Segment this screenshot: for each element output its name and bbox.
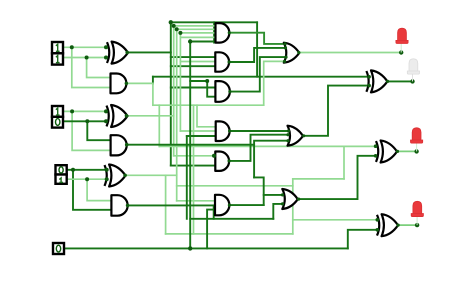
wire XOR P0 output to bus V3 xyxy=(125,174,177,176)
wire H3 light into AND M1 xyxy=(177,28,217,30)
wire B1 branch down to AND G1 upper input xyxy=(87,121,110,140)
op XOR gate S1 xyxy=(376,141,397,163)
wire bus V1 vertical dark xyxy=(170,22,172,165)
node A2 branch xyxy=(70,45,74,49)
node A0 branch xyxy=(71,168,75,172)
wire AND M3 output to OR C3 third input xyxy=(230,57,286,92)
digit 1 pin B2 xyxy=(56,56,60,63)
wire light riser to S1 feed line xyxy=(158,105,160,146)
input pin A2 value 1 xyxy=(52,42,63,53)
wire B0 branch down to AND G0 upper input xyxy=(87,179,111,200)
wire B0 to XOR P0 xyxy=(67,178,107,180)
wire AND G1 output run xyxy=(126,144,254,146)
op XOR gate S0 xyxy=(377,214,398,236)
wire AND M5 output to OR C2 second input xyxy=(231,135,289,161)
wire A0 to XOR P0 xyxy=(67,169,107,171)
node bus corner V3 xyxy=(175,27,179,31)
op AND gate M2 xyxy=(215,52,229,71)
wire C0 riser to XOR S0 lower input xyxy=(348,230,378,249)
node XOR P2 output xyxy=(125,51,129,55)
node XOR P0 input dots xyxy=(105,168,109,172)
op XOR gate P0 xyxy=(105,165,126,187)
node XOR S0 input dots xyxy=(376,218,380,222)
node AND G2 output xyxy=(125,82,129,86)
wire dark stub at bus left xyxy=(152,77,154,84)
node LED S2 terminal xyxy=(410,79,414,83)
wire to AND M3 bottom input Z jog xyxy=(190,81,215,97)
wire V1 to AND M5 bottom input xyxy=(171,165,216,167)
node bus corner V5 xyxy=(188,39,192,43)
wire G2 riser to OR C3 bottom input xyxy=(264,61,285,105)
wire V1 to AND M3 top input xyxy=(171,87,216,89)
wire AND G2 output xyxy=(126,82,153,84)
wire G1 riser at bus xyxy=(189,42,191,249)
op AND gate M4 xyxy=(216,121,230,141)
node XOR P1 input dots xyxy=(104,109,108,113)
wire V2 to AND M5 top input xyxy=(174,155,216,157)
wire H1 top run xyxy=(171,21,257,23)
op AND gate M1 xyxy=(216,23,230,42)
op XOR gate P2 xyxy=(107,42,128,64)
wire AND M6 output run xyxy=(230,204,264,206)
node M5 input dot xyxy=(212,154,216,158)
node OR C3 input ends xyxy=(283,42,286,45)
digit 0 pin B1 xyxy=(56,119,60,126)
digit 0 pin A0 xyxy=(59,167,63,173)
wire dark jog below OR C2 xyxy=(254,177,264,195)
wire AND G0 output run xyxy=(126,204,213,206)
node bus corner V2 xyxy=(172,24,176,28)
input pin B2 value 1 xyxy=(52,53,63,64)
wire B2 to XOR P2 xyxy=(63,57,106,59)
wire light long riser mid bus xyxy=(193,105,195,234)
wire B1 to XOR P1 xyxy=(63,120,106,122)
input pin A0 value 0 xyxy=(56,165,67,174)
node LED S1 terminal xyxy=(414,149,418,153)
wire XOR P1 output to bus V2 xyxy=(127,115,174,117)
wire P1 long run to XOR S1 top input xyxy=(159,145,375,147)
op AND gate G0 xyxy=(111,195,127,216)
wire V3 to AND M6 top input xyxy=(177,200,215,202)
node OR C1 input ends xyxy=(281,193,284,196)
wire A2 to XOR P2 xyxy=(63,46,106,48)
digit 1 pin A2 xyxy=(56,44,60,51)
op XOR gate S2 xyxy=(366,70,387,92)
wire H4 light into AND M1 xyxy=(180,32,216,34)
wire S0 output to LED xyxy=(398,224,417,226)
LED S1 red lit xyxy=(416,143,418,151)
op AND gate G1 xyxy=(111,135,127,155)
wire light bottom run xyxy=(166,233,293,235)
op OR gate C3 xyxy=(284,43,300,63)
input pin B0 value 1 xyxy=(56,175,67,184)
wire C3 output to LED xyxy=(299,52,401,54)
input pin C0 value 0 xyxy=(53,243,64,254)
node A1 branch xyxy=(70,109,74,113)
wire AND M4 output to OR C2 first input xyxy=(230,130,289,132)
node bus corner V1 xyxy=(169,20,173,24)
node XOR P0 output xyxy=(123,174,127,178)
op AND gate G2 xyxy=(111,74,127,94)
wire A1 to XOR P1 xyxy=(63,110,106,112)
node B2 branch xyxy=(85,56,89,60)
wire C1 to XOR S1 bottom input xyxy=(299,156,376,199)
digit 0 pin C0 xyxy=(56,245,60,252)
input pin A1 value 1 xyxy=(52,106,63,117)
node XOR P1 output xyxy=(125,114,129,118)
wire light riser to S1 line xyxy=(343,146,345,179)
node M3 jog dot xyxy=(205,79,209,83)
wire AND M1 output to OR C3 first input xyxy=(229,33,285,44)
op OR gate C2 xyxy=(288,126,304,146)
node gate outputs right xyxy=(297,51,300,54)
wire V4 to AND M2 middle input xyxy=(180,61,215,63)
wire light riser to AND M4 top input xyxy=(197,105,216,127)
LED C3 red lit xyxy=(400,44,402,53)
node XOR S1 input dots xyxy=(374,144,378,148)
wire bus V4 vertical light xyxy=(179,33,181,131)
input values text xyxy=(56,44,64,252)
wire bus riser to AND M1 bottom input xyxy=(190,41,214,43)
wire G1 riser into OR C2 third input xyxy=(254,141,288,178)
wire into XOR S0 top input xyxy=(293,219,378,221)
wire S2 output to LED xyxy=(388,80,413,82)
digit 1 pin A1 xyxy=(56,108,60,115)
wire A0 branch down to AND G0 lower input xyxy=(73,170,111,210)
wire A2 branch down to AND G2 lower input xyxy=(72,47,111,87)
node C0 branch xyxy=(188,246,192,250)
wire G2 descent to bridge xyxy=(152,83,154,105)
node LED C3 terminal xyxy=(399,50,403,54)
op XOR gate P1 xyxy=(107,105,128,127)
node LED S0 terminal xyxy=(415,223,419,227)
input pin B1 value 0 xyxy=(52,117,63,128)
node AND G0 output xyxy=(126,204,130,208)
op AND gate M3 xyxy=(215,81,229,102)
wire V1 to AND M2 top input xyxy=(171,56,216,58)
node AND G1 output xyxy=(125,143,129,147)
wire C0 long run xyxy=(65,247,348,249)
wire H4b light into AND M1 lower xyxy=(180,36,216,38)
op AND gate M5 xyxy=(215,152,229,171)
wire bus V2 vertical light xyxy=(173,26,175,156)
wire S1 output to LED xyxy=(398,150,417,152)
wire V4 to AND M4 middle input xyxy=(180,130,215,132)
wire G0 short drop xyxy=(213,205,215,218)
wire bus V3 vertical light xyxy=(176,29,178,201)
node B1 branch xyxy=(85,119,89,123)
wire M6 riser into OR C1 top input xyxy=(264,195,283,205)
wire C2 to XOR S2 bottom input xyxy=(304,86,369,136)
wire light riser from P0 out xyxy=(165,175,167,234)
wire light riser at OR C1 xyxy=(292,179,294,234)
wire H2 light into AND M1 xyxy=(174,25,217,27)
wire AND M2 output to OR C3 second input xyxy=(230,48,286,62)
wire B2 branch down to AND G2 upper input xyxy=(87,58,111,78)
wire bottom feed run to OR C1 xyxy=(190,218,273,220)
wire C0 riser to AND M6 bottom input xyxy=(207,210,215,249)
wire riser into OR C1 bottom input xyxy=(273,204,282,219)
wire V1 to AND M2 bottom input xyxy=(171,65,216,67)
node B0 branch xyxy=(85,177,89,181)
wire XOR P2 output to bus V1 xyxy=(127,51,171,53)
node XOR S2 input dots xyxy=(367,75,371,79)
wire light upper jog run xyxy=(293,178,344,180)
wire P2 descent right side xyxy=(256,22,258,76)
wire bus dark vertical second xyxy=(186,136,188,219)
wire P2 long run to XOR S2 xyxy=(153,76,369,78)
node XOR P2 input dots xyxy=(104,45,108,49)
wire G2 bridge run xyxy=(153,104,264,106)
digit 1 pin B0 xyxy=(59,178,63,183)
wire to AND M4 bottom input xyxy=(187,135,216,137)
op OR gate C1 xyxy=(282,189,298,209)
LED S0 red lit xyxy=(416,217,418,225)
wire M1 C jog at gate edge xyxy=(213,22,215,42)
node OR C2 input ends xyxy=(287,129,290,132)
op AND gate M6 xyxy=(215,195,229,216)
LED S2 off xyxy=(412,74,414,81)
node bus corner V4 xyxy=(178,31,182,35)
node middle AND outputs xyxy=(228,31,231,34)
wire A1 branch down to AND G1 lower input xyxy=(72,111,111,150)
wire light mid run xyxy=(177,185,293,187)
